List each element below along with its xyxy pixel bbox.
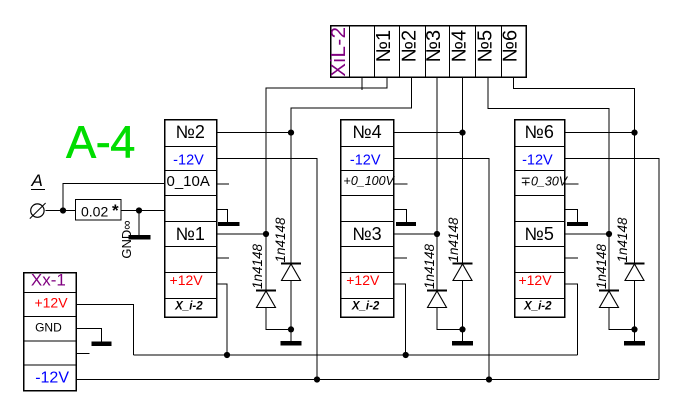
ground diodes module1 <box>281 341 302 346</box>
node N6/VD6 <box>631 130 637 136</box>
module X_i-2 no.1 (N2/N1) <box>164 120 216 318</box>
wire N4 out <box>394 132 463 134</box>
wire pin2 to node K1 <box>291 77 412 133</box>
node ammeter junction <box>60 207 66 213</box>
svg-text:+12V: +12V <box>170 272 204 288</box>
node N5/VD5 <box>606 231 612 237</box>
wire stub row6 module1 <box>216 257 229 259</box>
wire N2 out <box>216 132 291 134</box>
ground diodes module3 <box>624 341 645 346</box>
resistor shunt 0.02 <box>76 200 122 221</box>
diode VD1 1n4148 <box>256 234 291 329</box>
ground module3 <box>567 222 588 226</box>
svg-text:1n4148: 1n4148 <box>250 243 265 289</box>
wire stub Xx-1 row4 <box>76 353 90 355</box>
svg-text:1n4148: 1n4148 <box>615 217 630 263</box>
svg-text:+12V: +12V <box>34 295 68 311</box>
svg-text:X_i-2: X_i-2 <box>174 301 203 313</box>
svg-text:1n4148: 1n4148 <box>422 243 437 289</box>
svg-text:№6: №6 <box>525 122 554 142</box>
svg-text:-12V: -12V <box>350 153 381 169</box>
svg-text:№2: №2 <box>176 122 205 142</box>
node -12V rail left <box>314 376 320 382</box>
wire node up to 0_10A row <box>63 184 164 211</box>
junction node dots <box>60 130 638 383</box>
wire N6 out <box>564 132 634 134</box>
svg-text:-12V: -12V <box>35 370 69 387</box>
wire gnd module3 <box>564 210 577 223</box>
connector XiL-2 <box>331 26 527 78</box>
node VD5-VD6 gnd <box>631 326 637 332</box>
wire gnd module1 <box>216 210 227 223</box>
svg-text:GND∞: GND∞ <box>119 220 134 258</box>
svg-text:№2: №2 <box>399 30 421 63</box>
ground module1 <box>218 222 240 226</box>
wire pin5 to node A3 <box>488 77 609 234</box>
wire stub empty cell <box>361 77 363 90</box>
svg-text:№1: №1 <box>176 224 205 244</box>
node VD1-VD2 gnd <box>288 326 294 332</box>
wire +12V rail <box>134 354 578 356</box>
node -12V rail mid <box>486 376 492 382</box>
wire +12V module3 <box>564 284 577 355</box>
node +12V rail left <box>224 352 230 358</box>
ground GNDoo <box>128 235 150 240</box>
wire -12V module3 <box>564 159 659 380</box>
wire N5 out <box>564 233 609 235</box>
svg-text:0.02: 0.02 <box>81 204 108 220</box>
wire -12V module1 <box>216 159 317 380</box>
svg-text:GND: GND <box>35 321 62 335</box>
svg-text:№6: №6 <box>500 30 522 63</box>
wire gnd module2 <box>394 210 407 223</box>
wire +12V module1 <box>216 284 227 355</box>
diode VD6 1n4148 <box>625 133 645 341</box>
svg-text:№3: №3 <box>352 224 381 244</box>
svg-text:Xx-1: Xx-1 <box>31 271 66 290</box>
svg-text:∓0_30V: ∓0_30V <box>521 175 569 189</box>
module X_i-2 no.3 (N6/N5) <box>514 120 565 318</box>
wire node to shunt <box>63 210 75 212</box>
node shunt-right junction <box>136 207 142 213</box>
diode VD4 1n4148 <box>453 133 473 341</box>
svg-text:№5: №5 <box>475 30 497 63</box>
wire GND Xx-1 <box>76 329 102 342</box>
svg-text:№5: №5 <box>525 224 554 244</box>
wire +12V from Xx-1 <box>76 305 134 356</box>
svg-text:+12V: +12V <box>346 272 380 288</box>
wire stub 0_10A <box>216 183 229 185</box>
wire stub row6 module2 <box>394 257 407 259</box>
svg-text:-12V: -12V <box>173 153 204 169</box>
svg-text:+0_100V: +0_100V <box>344 174 396 188</box>
wire shunt to module <box>121 210 164 212</box>
node N2/VD2 <box>288 130 294 136</box>
wire -12V module2 <box>394 159 489 380</box>
wire pin4 to node K2 <box>462 77 464 133</box>
svg-text:*: * <box>112 201 119 220</box>
node +12V rail mid <box>403 352 409 358</box>
ground diodes module2 <box>452 341 473 346</box>
ground module2 <box>396 222 416 226</box>
node N1/VD1 <box>263 231 269 237</box>
svg-text:+12V: +12V <box>518 272 552 288</box>
svg-text:№4: №4 <box>352 122 381 142</box>
svg-text:X_i-2: X_i-2 <box>523 301 552 313</box>
svg-text:1n4148: 1n4148 <box>594 243 609 289</box>
wire -12V rail <box>76 379 659 381</box>
wire pin1 to node A1 <box>266 77 387 234</box>
svg-text:1n4148: 1n4148 <box>273 217 288 263</box>
module X_i-2 no.2 (N4/N3) <box>340 120 393 318</box>
svg-text:XiL-2: XiL-2 <box>327 26 350 76</box>
svg-text:1n4148: 1n4148 <box>446 217 461 263</box>
wire stub 0_100V <box>394 183 408 185</box>
svg-text:X_i-2: X_i-2 <box>351 301 380 313</box>
node N3/VD3 <box>434 231 440 237</box>
wire +12V module2 <box>394 284 406 355</box>
svg-text:-12V: -12V <box>522 153 553 169</box>
wire node GND down <box>138 211 140 236</box>
svg-text:№4: №4 <box>449 30 471 63</box>
svg-text:A: A <box>31 171 43 190</box>
node N4/VD4 <box>459 130 465 136</box>
wire N3 out <box>394 233 437 235</box>
wire stub row6 module3 <box>564 257 578 259</box>
diode VD5 1n4148 <box>599 234 635 329</box>
ground Xx-1 <box>92 342 112 346</box>
svg-text:№3: №3 <box>423 30 445 63</box>
wire N1 out <box>216 233 266 235</box>
wire pin6 to node K3 <box>514 77 635 133</box>
svg-text:0_10A: 0_10A <box>167 173 210 190</box>
wire ammeter to node <box>46 210 64 212</box>
wire pin3 to node A2 <box>436 77 438 234</box>
node VD3-VD4 gnd <box>459 326 465 332</box>
diode VD3 1n4148 <box>427 234 463 329</box>
wire stub 0_30V <box>564 183 578 185</box>
connector Xx-1 <box>24 273 77 391</box>
diode VD2 1n4148 <box>281 133 301 341</box>
svg-text:№1: №1 <box>373 30 395 63</box>
svg-text:A-4: A-4 <box>66 117 135 168</box>
ammeter probe symbol <box>30 203 46 219</box>
